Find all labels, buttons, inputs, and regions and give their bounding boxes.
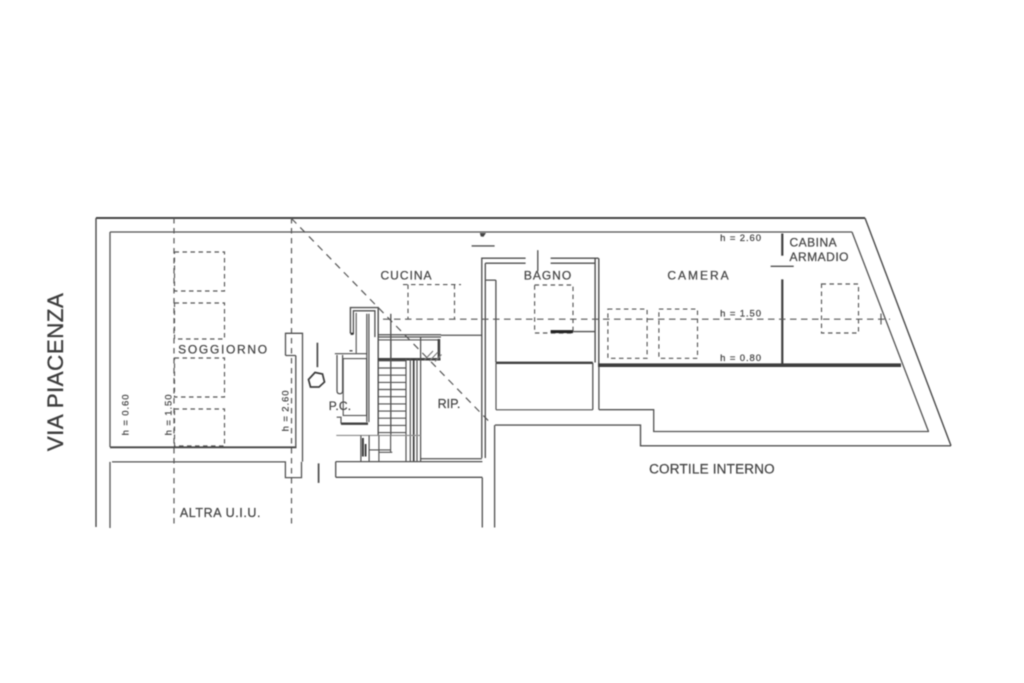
outer boundary slanted right wall — [865, 218, 951, 446]
pc room top wall — [335, 353, 367, 355]
svg-text:h = 0.60: h = 0.60 — [121, 394, 132, 436]
stair treads — [378, 361, 406, 433]
long dashed measure line — [383, 318, 890, 320]
roof slope diagonal dashed line — [292, 219, 492, 424]
camera furniture dashed box 2 — [659, 309, 698, 358]
soggiorno right wall double line — [286, 356, 303, 462]
svg-text:BAGNO: BAGNO — [524, 269, 572, 283]
bagno lower wall line — [573, 331, 595, 333]
wall end hatch marks — [425, 351, 442, 362]
rip bottom wall line — [421, 458, 482, 460]
svg-text:RIP.: RIP. — [438, 397, 461, 411]
pc right wall double line — [367, 314, 369, 422]
pc shower fixture — [343, 359, 366, 416]
stair landing thick bottom edge — [378, 358, 440, 361]
camera bottom thick wall — [598, 363, 901, 367]
soggiorno right wall cap — [286, 333, 303, 355]
svg-text:CUCINA: CUCINA — [380, 269, 432, 283]
room below bagno top thick wall — [496, 362, 593, 364]
measure line cross tick — [880, 314, 882, 325]
outer boundary left wall — [95, 218, 97, 527]
cabina armadio door tick — [771, 265, 794, 267]
soggiorno bottom wall — [110, 446, 297, 448]
entry door jamb tick upper — [316, 343, 318, 368]
room below bagno right wall double line — [593, 363, 599, 410]
stairwell right boundary — [420, 337, 422, 462]
svg-text:CAMERA: CAMERA — [667, 269, 730, 283]
inner boundary left wall — [109, 232, 111, 447]
cabina armadio wall lower — [781, 279, 783, 364]
soggiorno furniture dashed box 2 — [175, 303, 225, 339]
pc door leaf — [337, 355, 343, 394]
bagno upper-left wall double line — [482, 258, 526, 263]
svg-text:CABINA: CABINA — [790, 236, 838, 250]
altra uiu top wall with notch — [112, 462, 302, 478]
stair bottom light line — [336, 434, 420, 436]
bagno left wall double line — [482, 258, 486, 459]
kitchen hook wall inner — [353, 311, 375, 337]
stair right rails — [406, 359, 417, 462]
svg-text:h = 0.80: h = 0.80 — [720, 353, 762, 364]
stair landing box — [391, 340, 439, 359]
bagno upper-right wall double line — [551, 258, 599, 263]
svg-text:ALTRA U.I.U.: ALTRA U.I.U. — [180, 506, 261, 520]
inner boundary top wall — [110, 231, 852, 233]
dashed height line h=1.50 left — [173, 218, 175, 527]
bagno dark fixture bar — [551, 330, 573, 333]
kitchen hook wall outer — [350, 308, 378, 436]
bagno right wall double line — [595, 258, 599, 367]
bagno shower dashed box — [535, 285, 573, 333]
lower corridor wall band — [336, 462, 483, 478]
camera furniture dashed box 1 — [608, 309, 647, 358]
courtyard inner boundary — [599, 410, 929, 432]
door jamb tick lower — [318, 463, 320, 483]
stair bottom door jambs — [361, 435, 369, 461]
svg-text:SOGGIORNO: SOGGIORNO — [178, 343, 269, 357]
svg-text:h = 2.60: h = 2.60 — [720, 233, 762, 244]
stair handrail dark line — [413, 359, 415, 462]
cabina furniture dashed box — [822, 284, 859, 333]
courtyard outer boundary — [495, 425, 951, 446]
pc wall tick — [350, 350, 353, 352]
soggiorno furniture dashed box 1 — [175, 252, 225, 291]
kitchen hook wall end cap — [351, 333, 354, 335]
room below bagno outline — [496, 363, 593, 410]
svg-text:h = 1.50: h = 1.50 — [164, 394, 175, 436]
stair bottom small box — [369, 436, 392, 462]
cucina dashed table top edge — [403, 284, 461, 286]
svg-text:CORTILE INTERNO: CORTILE INTERNO — [649, 462, 775, 477]
pc bottom wall — [341, 423, 368, 425]
outer boundary top wall — [96, 217, 865, 219]
svg-text:VIA PIACENZA: VIA PIACENZA — [43, 293, 68, 452]
inner boundary slanted right wall — [852, 232, 929, 432]
bagno door leaf — [537, 250, 539, 271]
cabina armadio wall upper — [781, 234, 783, 256]
stair landing top line — [378, 339, 438, 341]
stair bottom door hinge dark marks — [362, 438, 364, 457]
corridor top wall double line — [378, 335, 441, 337]
svg-text:P.C.: P.C. — [329, 399, 352, 413]
corridor top wall single continuation — [441, 334, 482, 336]
cucina dashed table sides — [408, 285, 455, 320]
svg-text:h = 2.60: h = 2.60 — [281, 390, 292, 432]
stair landing thick right edge — [438, 339, 441, 360]
entrance arrow symbol — [309, 373, 325, 388]
duct partition next to pc — [355, 313, 357, 354]
bagno anteroom step — [486, 280, 496, 362]
dark mark on top wall — [480, 233, 486, 237]
svg-text:ARMADIO: ARMADIO — [790, 250, 850, 264]
pc bottom step — [337, 417, 341, 424]
soggiorno furniture dashed box 3 — [175, 358, 225, 397]
corridor door tick — [472, 245, 495, 247]
svg-text:h = 1.50: h = 1.50 — [720, 309, 762, 320]
dashed height line h=2.60 left — [291, 218, 293, 527]
stair center rail line — [390, 314, 392, 436]
soggiorno furniture dashed box 4 — [175, 409, 225, 446]
corridor lower-right wall double line — [482, 425, 494, 527]
altra uiu left wall — [109, 462, 111, 528]
